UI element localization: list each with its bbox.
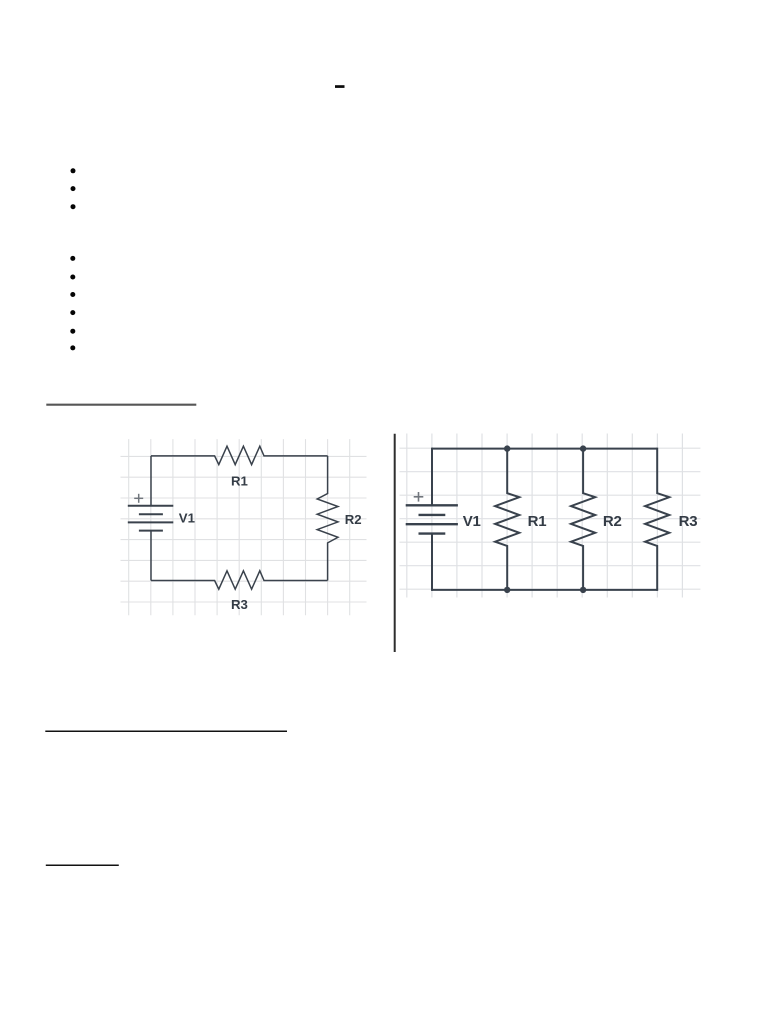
svg-text:R1: R1 [231,474,248,489]
svg-text:R2: R2 [345,512,362,527]
svg-text:R1: R1 [528,513,547,530]
svg-text:R3: R3 [231,597,248,612]
svg-text:R2: R2 [603,513,622,530]
svg-text:V1: V1 [179,510,195,525]
svg-text:R3: R3 [679,513,698,530]
svg-text:V1: V1 [463,513,481,530]
